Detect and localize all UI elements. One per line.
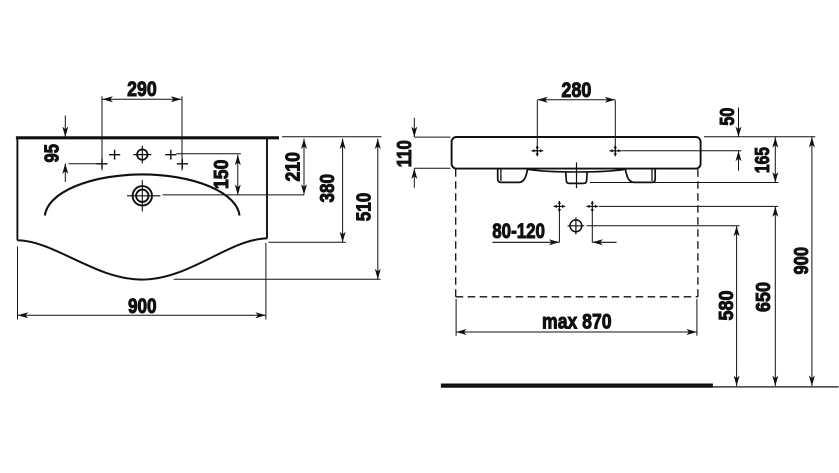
left view: basin left edge <box>16 137 18 240</box>
dim 510 <box>377 139 379 280</box>
dashed installation zone left <box>455 169 457 297</box>
svg-text:380: 380 <box>317 174 339 203</box>
right view: tap hole mark right <box>610 150 622 152</box>
dim 650 <box>774 206 776 386</box>
right view: drain pipe circle <box>570 220 582 232</box>
svg-text:900: 900 <box>791 247 813 275</box>
left view: centre tap hole crosshair <box>133 154 151 156</box>
left view: drain crosshair <box>127 195 160 197</box>
svg-text:165: 165 <box>752 147 774 173</box>
svg-text:95: 95 <box>42 144 64 163</box>
leader fixing mark to 650 dim <box>599 205 779 207</box>
left view: basin right edge <box>266 137 268 239</box>
dim 290 <box>102 98 181 100</box>
leader drain pipe to 580 dim <box>587 225 740 227</box>
dim 150 <box>237 155 239 195</box>
left view: outer tap mark right <box>177 163 188 165</box>
svg-text:110: 110 <box>394 140 416 167</box>
svg-text:510: 510 <box>354 193 376 222</box>
left view: basin bottom curved outline <box>17 238 267 279</box>
right view: drain centreline <box>576 162 578 188</box>
right view: bar top extension to 900 dim <box>704 136 815 138</box>
dim 95 <box>64 116 66 138</box>
dim 380 <box>342 139 344 243</box>
left view: basin top edge (thick) <box>16 136 279 139</box>
dim 80-120 <box>493 241 560 243</box>
svg-text:580: 580 <box>716 291 738 321</box>
svg-text:150: 150 <box>211 160 233 190</box>
right view: wall fixing mark left <box>554 205 566 207</box>
svg-text:650: 650 <box>753 282 775 312</box>
svg-text:max 870: max 870 <box>542 311 612 334</box>
svg-text:280: 280 <box>561 79 591 102</box>
right view: basin front outline <box>452 137 701 169</box>
floor line thin right <box>713 386 839 388</box>
floor line thick <box>441 384 713 388</box>
svg-text:210: 210 <box>282 152 304 182</box>
left view: outer tap mark left <box>96 163 107 165</box>
svg-text:290: 290 <box>127 78 157 101</box>
left view: inner tap mark left <box>109 154 120 156</box>
left view: drain inner circle <box>136 190 148 202</box>
right view: wall fixing mark right <box>587 205 599 207</box>
dashed installation zone bottom <box>456 296 698 298</box>
svg-text:80-120: 80-120 <box>492 220 545 243</box>
left view: inner bowl arc <box>45 174 240 215</box>
left view: centre tap hole circle <box>137 149 147 159</box>
left view: inner tap mark right <box>165 154 176 156</box>
svg-text:900: 900 <box>128 295 157 318</box>
left view: drain outer circle <box>133 186 152 205</box>
dim 210 <box>303 139 305 195</box>
leader tap hole to 50 dim <box>621 150 741 152</box>
dim 165 <box>774 137 776 182</box>
dim 900 right <box>811 137 813 386</box>
right view: drain outlet box <box>566 172 588 184</box>
dim 580 <box>736 226 738 386</box>
right view: left mounting foot <box>498 169 528 183</box>
dashed installation zone right <box>697 169 699 297</box>
dim 280 <box>536 100 538 155</box>
svg-text:50: 50 <box>717 108 739 126</box>
dim 900 left view <box>18 314 266 316</box>
leader from drain centre to 210 dim <box>163 194 305 196</box>
right view: tap hole mark left <box>532 150 544 152</box>
dim 50 <box>738 108 740 138</box>
dim max 870 <box>455 299 457 336</box>
dim 110 <box>413 118 415 137</box>
right view: bowl underside arc <box>528 169 626 172</box>
left view: top edge thin extension to vertical dims <box>282 136 382 138</box>
right view: right mounting foot <box>625 169 655 183</box>
